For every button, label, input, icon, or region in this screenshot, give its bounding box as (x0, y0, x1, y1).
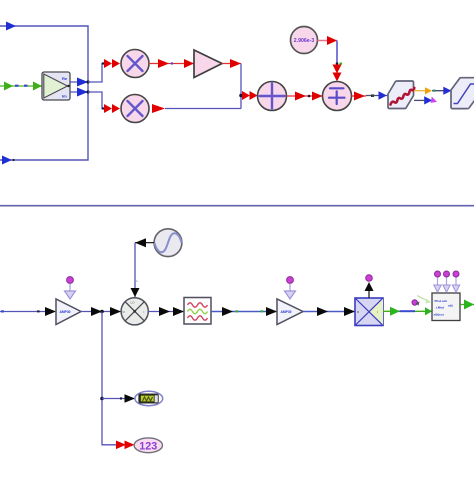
wire MX2 to demod block D1 (383, 307, 433, 316)
svg-text:xI(t)cos: xI(t)cos (434, 313, 445, 317)
svg-text:x(t): x(t) (448, 304, 453, 308)
wire F1 to amplifier A3 (211, 307, 277, 316)
oscillator OSC1 (154, 229, 182, 257)
svg-text:Re: Re (62, 76, 68, 81)
wire to scope (102, 394, 135, 403)
wire C1 to S2 (318, 36, 343, 82)
wire MX1 to filter F1 (148, 307, 184, 316)
wire jog to multiplier M1 (88, 62, 106, 82)
red arrows into S1 (242, 91, 258, 100)
mixer MX1 (121, 298, 148, 325)
param port of A3 (285, 277, 296, 299)
svg-text:PhsLock: PhsLock (435, 299, 448, 303)
input arrow top-left (6, 22, 16, 31)
svg-text:Im: Im (62, 94, 67, 99)
wire D1 output (460, 300, 474, 310)
svg-text:t.Mod: t.Mod (436, 306, 444, 310)
red arrows into M1 (104, 59, 120, 68)
amplifier A2 (56, 299, 81, 325)
constant C1 (291, 27, 318, 54)
green arrow 1 (4, 82, 13, 91)
wire Q1 out2 dangling (414, 96, 437, 104)
param port on wire (412, 296, 431, 306)
svg-text:2.906e-3: 2.906e-3 (294, 38, 315, 44)
wire OSC1 to MX1 LO (131, 238, 155, 297)
numeric display N1 (134, 438, 162, 453)
wire A1 down to summer S1 (222, 59, 241, 96)
wire tap down (102, 312, 117, 445)
green arrow 2 (33, 82, 42, 91)
limiter L1 (451, 78, 474, 109)
wire A2 to mixer MX1 (81, 307, 121, 316)
wire input bottom (0, 307, 56, 316)
svg-text:LO: LO (131, 301, 136, 305)
red arrows into M2 (104, 104, 120, 113)
wire Q1 out1 to limiter (414, 87, 452, 95)
wire S1 to S2 (287, 92, 323, 101)
amplifier A3 (277, 299, 303, 325)
param ports of D1 (434, 271, 460, 292)
param port of A2 (65, 277, 76, 299)
wire U1 out Re (70, 78, 88, 87)
quantizer Q1 (388, 81, 414, 109)
summer S1 (258, 82, 287, 111)
wire jog to multiplier M2 (88, 92, 106, 110)
svg-text:AMP30: AMP30 (60, 310, 71, 314)
node junction tap (100, 310, 104, 314)
wire S2 to quantizer (352, 91, 389, 100)
wire A3 to mixer MX2 (303, 307, 355, 316)
output port up of MX2 (365, 275, 374, 298)
node junction scope branch (100, 397, 104, 401)
svg-text:123: 123 (139, 441, 157, 453)
multiplier M2 (121, 95, 149, 123)
block U1 complex to Re/Im (42, 72, 70, 100)
mixer MX2 square (355, 298, 383, 326)
wire M2 to summer S1 (152, 96, 241, 114)
wire M1 to amplifier A1 (149, 59, 194, 68)
scope display SC1 (135, 391, 163, 405)
input arrow bottom-left (2, 156, 15, 165)
summer S2 (323, 82, 352, 111)
separator line (0, 205, 474, 207)
multiplier M1 (121, 50, 149, 78)
node junction Re (86, 80, 89, 83)
red arrows into numeric display (116, 441, 135, 450)
wire green input (0, 85, 42, 87)
wire top feedback loop (0, 26, 88, 160)
node junction Im (86, 90, 89, 93)
svg-text:AMP30: AMP30 (281, 310, 292, 314)
amplifier A1 (194, 50, 222, 78)
filter F1 (184, 298, 211, 325)
node junction S1 input (239, 94, 243, 98)
wire U1 out Im (70, 88, 88, 97)
demodulator block D1 (432, 293, 460, 321)
